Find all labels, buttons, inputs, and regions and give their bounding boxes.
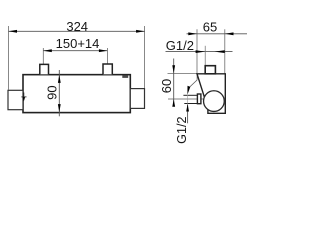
svg-text:G1/2: G1/2 [175, 117, 189, 144]
svg-text:150+14: 150+14 [56, 36, 100, 51]
svg-text:65: 65 [203, 20, 217, 35]
svg-text:G1/2: G1/2 [166, 38, 194, 53]
svg-text:90: 90 [44, 85, 59, 99]
svg-text:60: 60 [159, 79, 174, 93]
svg-text:324: 324 [66, 19, 88, 34]
